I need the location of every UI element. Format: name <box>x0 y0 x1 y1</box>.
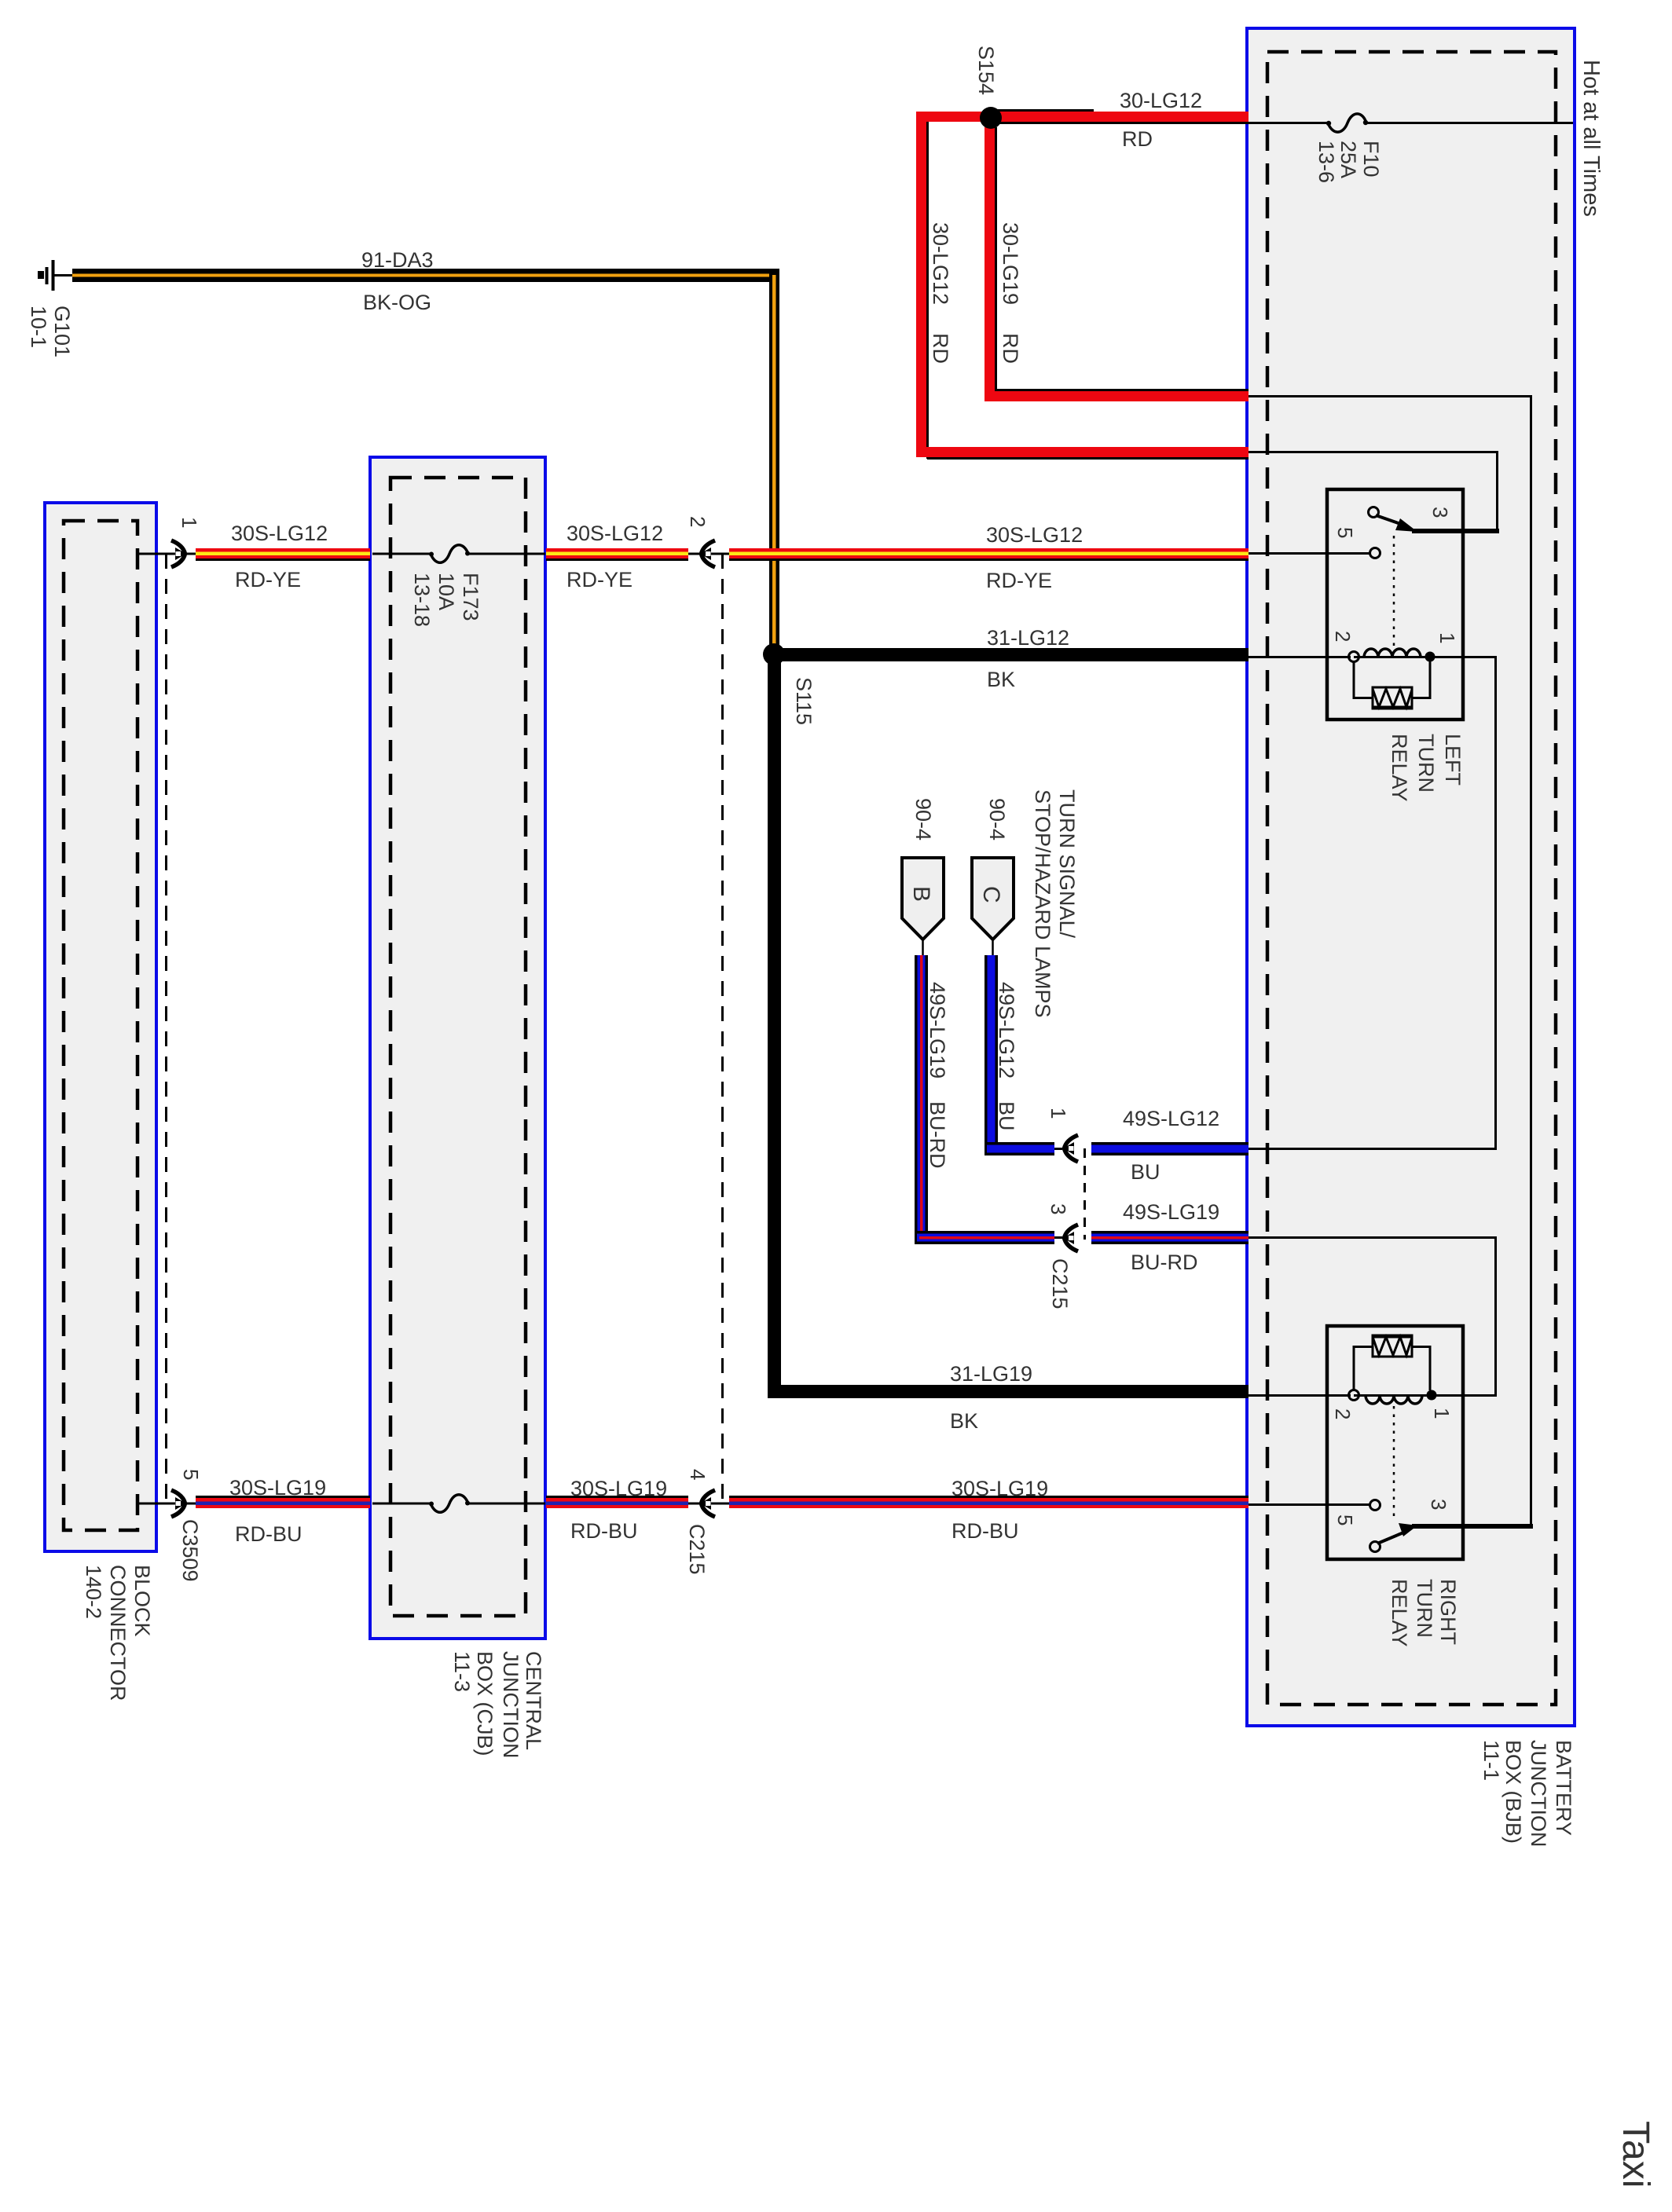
svg-text:90-4: 90-4 <box>985 798 1009 840</box>
svg-text:BK: BK <box>987 668 1015 691</box>
fuse F10 feed line inside BJB <box>1248 122 1328 124</box>
fuse F172 wire inside CJB <box>372 1503 431 1505</box>
internal wire 30S-LG12 to left relay pin 5 <box>1248 552 1370 555</box>
connector pin 1 arrow at C215 49S-LG12 <box>1063 1135 1078 1162</box>
central junction box CJB outline <box>370 457 545 1639</box>
wire 31-LG19 BK from S115 down then right to BJB <box>768 654 1248 1398</box>
svg-text:BLOCK: BLOCK <box>130 1565 154 1637</box>
svg-text:F10: F10 <box>1359 141 1383 178</box>
block connector outline <box>45 503 156 1551</box>
ground G101 symbol <box>38 260 75 291</box>
right relay coil <box>1349 1390 1437 1404</box>
internal wire 31-LG19 to right relay pin 2 <box>1248 1394 1351 1397</box>
connector B pentagon <box>902 858 944 957</box>
fuse F10 element <box>1326 114 1368 132</box>
svg-text:91-DA3: 91-DA3 <box>361 248 434 272</box>
svg-text:CENTRAL: CENTRAL <box>522 1651 545 1750</box>
svg-text:30-LG19: 30-LG19 <box>999 222 1022 305</box>
svg-text:RD-YE: RD-YE <box>235 568 301 591</box>
svg-text:RD-BU: RD-BU <box>570 1519 638 1543</box>
svg-text:30S-LG19: 30S-LG19 <box>570 1477 667 1500</box>
svg-text:3: 3 <box>1428 507 1452 518</box>
svg-text:11-3: 11-3 <box>450 1651 474 1692</box>
connector pin 3 arrow at C215 49S-LG19 <box>1063 1225 1078 1251</box>
left relay dotted link <box>1393 536 1395 646</box>
svg-text:30-LG12: 30-LG12 <box>1120 89 1202 112</box>
wire 30S-LG19 RD-BU segment 3 (C215 to BJB) <box>729 1497 1248 1509</box>
left relay switch common terminal <box>1369 507 1379 518</box>
left relay coil <box>1349 649 1435 662</box>
svg-text:RD-BU: RD-BU <box>951 1519 1019 1543</box>
connector pin 1 arrow at block connector <box>171 540 186 567</box>
svg-text:30S-LG19: 30S-LG19 <box>951 1477 1048 1500</box>
svg-text:11-1: 11-1 <box>1479 1740 1503 1781</box>
svg-text:31-LG12: 31-LG12 <box>987 626 1069 650</box>
wire 30S-LG12 RD-YE segment 1 (block connector to CJB) <box>137 548 370 560</box>
svg-text:C3509: C3509 <box>178 1519 202 1582</box>
svg-text:5: 5 <box>1333 1514 1357 1525</box>
svg-text:TURN SIGNAL/: TURN SIGNAL/ <box>1055 789 1079 939</box>
svg-text:BU-RD: BU-RD <box>926 1101 949 1169</box>
svg-text:RD: RD <box>999 333 1022 364</box>
svg-text:BU: BU <box>995 1101 1018 1131</box>
left relay pin 3 bar <box>1412 529 1499 533</box>
svg-text:BU-RD: BU-RD <box>1131 1251 1198 1274</box>
svg-text:B: B <box>908 886 934 902</box>
svg-text:BATTERY: BATTERY <box>1552 1740 1575 1836</box>
svg-text:25A: 25A <box>1336 141 1360 178</box>
svg-text:49S-LG12: 49S-LG12 <box>1123 1107 1219 1130</box>
internal wire from left relay pin 1 down to 49S-LG12 exit <box>1248 657 1496 1149</box>
svg-text:2: 2 <box>1331 1408 1355 1419</box>
svg-text:1: 1 <box>1047 1108 1070 1119</box>
junction S115 <box>763 643 785 665</box>
svg-text:JUNCTION: JUNCTION <box>499 1651 522 1759</box>
wire 49S-LG12 BU from connector C down then right to BJB <box>984 955 1248 1155</box>
svg-text:10A: 10A <box>434 573 458 610</box>
svg-text:RD: RD <box>929 333 952 364</box>
svg-text:49S-LG19: 49S-LG19 <box>1123 1200 1219 1224</box>
svg-text:BU: BU <box>1131 1160 1160 1184</box>
connector C3509 dashed line <box>165 554 167 1503</box>
fuse F173 element <box>429 545 470 563</box>
connector pin 5 arrow at block connector <box>171 1490 186 1517</box>
svg-text:RD-YE: RD-YE <box>566 568 632 591</box>
svg-text:S115: S115 <box>792 677 816 725</box>
connector C215 dashed line <box>721 554 724 1503</box>
svg-text:30S-LG12: 30S-LG12 <box>986 523 1083 547</box>
svg-text:13-6: 13-6 <box>1314 141 1338 183</box>
svg-text:C215: C215 <box>685 1524 709 1575</box>
svg-text:3: 3 <box>1047 1203 1070 1214</box>
internal wire from 30-LG12 to left relay pin 3 <box>1248 452 1498 532</box>
svg-text:BOX (BJB): BOX (BJB) <box>1501 1740 1525 1844</box>
svg-text:JUNCTION: JUNCTION <box>1527 1740 1550 1848</box>
wire 30-LG19 RD : S154 down then right into BJB <box>984 123 1248 401</box>
svg-text:TURN: TURN <box>1414 734 1438 793</box>
svg-text:RELAY: RELAY <box>1388 734 1411 802</box>
svg-text:RD-YE: RD-YE <box>986 569 1052 592</box>
svg-text:2: 2 <box>1331 631 1355 642</box>
svg-text:BOX (CJB): BOX (CJB) <box>473 1651 497 1756</box>
svg-text:F173: F173 <box>459 573 482 621</box>
right relay switch arm <box>1377 1531 1407 1544</box>
svg-text:30S-LG12: 30S-LG12 <box>231 522 328 545</box>
left relay resistor <box>1354 661 1430 709</box>
fuse F173 wire inside CJB <box>372 553 431 555</box>
svg-text:CONNECTOR: CONNECTOR <box>106 1565 130 1701</box>
svg-text:3: 3 <box>1427 1499 1450 1510</box>
svg-text:1: 1 <box>178 517 201 528</box>
svg-text:140-2: 140-2 <box>82 1565 105 1619</box>
right relay pin 5 terminal <box>1370 1500 1380 1511</box>
svg-text:Hot at all Times: Hot at all Times <box>1578 60 1604 217</box>
wire 91-DA3 BK-OG vertical run down to S115 <box>769 269 779 646</box>
svg-text:30-LG12: 30-LG12 <box>929 222 952 305</box>
svg-text:BK: BK <box>950 1409 978 1433</box>
svg-text:90-4: 90-4 <box>911 798 935 840</box>
svg-text:30S-LG12: 30S-LG12 <box>566 522 663 545</box>
wire 30S-LG12 RD-YE segment 2 (CJB to C215) <box>546 548 731 560</box>
svg-text:49S-LG12: 49S-LG12 <box>995 982 1018 1079</box>
wire 49S-LG19 BU-RD from connector B down then right to BJB <box>915 955 1248 1244</box>
svg-text:5: 5 <box>1333 527 1357 538</box>
wire 30S-LG12 RD-YE segment 3 (C215 to BJB) <box>729 548 1248 560</box>
wire 30S-LG19 RD-BU segment 2 (CJB to C215) <box>546 1497 731 1509</box>
internal wire 30S-LG19 to right relay pin 5 <box>1248 1503 1370 1506</box>
battery junction box BJB outline <box>1247 28 1575 1726</box>
internal wire from 49S-LG19 exit to right relay pin 1 <box>1248 1238 1496 1396</box>
svg-text:49S-LG19: 49S-LG19 <box>926 982 949 1079</box>
left relay switch arm <box>1376 515 1407 526</box>
wire 30S-LG19 RD-BU segment 1 (block connector to CJB) <box>137 1497 370 1509</box>
svg-text:TURN: TURN <box>1413 1579 1436 1638</box>
right relay dotted link <box>1393 1406 1395 1521</box>
junction S154 <box>980 107 1002 129</box>
right relay switch common terminal <box>1370 1542 1380 1552</box>
svg-text:13-18: 13-18 <box>410 573 434 627</box>
wire 91-DA3 BK-OG horizontal run <box>72 269 779 282</box>
connector pin 4 arrow at C215 lower <box>700 1490 715 1517</box>
svg-text:5: 5 <box>179 1469 203 1480</box>
svg-text:G101: G101 <box>50 306 74 357</box>
svg-text:1: 1 <box>1430 1408 1454 1419</box>
svg-text:RIGHT: RIGHT <box>1436 1579 1460 1645</box>
internal wire from 30-LG19 down to right relay pin 3 <box>1248 397 1531 1525</box>
svg-text:4: 4 <box>686 1469 709 1480</box>
svg-text:BK-OG: BK-OG <box>363 291 431 314</box>
svg-text:C215: C215 <box>1048 1258 1072 1309</box>
svg-text:1: 1 <box>1435 632 1459 643</box>
svg-text:10-1: 10-1 <box>27 306 50 348</box>
svg-text:30S-LG19: 30S-LG19 <box>229 1476 326 1500</box>
internal wire 31-LG12 to left relay pin 2 <box>1248 656 1351 658</box>
right relay resistor <box>1354 1335 1430 1390</box>
svg-text:2: 2 <box>686 516 709 527</box>
fuse F172 element <box>429 1495 470 1513</box>
left turn relay box <box>1327 489 1463 720</box>
connector C pentagon <box>972 858 1014 957</box>
wire 30-LG12 RD : S154 left then down then right into BJB <box>916 111 1251 460</box>
left relay pin 5 terminal <box>1370 548 1380 558</box>
svg-text:S154: S154 <box>974 46 998 95</box>
svg-text:31-LG19: 31-LG19 <box>950 1362 1032 1386</box>
svg-text:RD: RD <box>1122 127 1153 151</box>
connector C215 short dashed line at 49S wires <box>1083 1148 1086 1240</box>
svg-text:RELAY: RELAY <box>1388 1579 1411 1647</box>
placeholder groups filled in later <box>38 107 1251 1508</box>
wire 31-LG12 BK from S115 to BJB <box>774 648 1248 661</box>
svg-text:RD-BU: RD-BU <box>235 1522 302 1546</box>
connector pin 2 arrow at C215 upper <box>700 540 715 567</box>
svg-text:LEFT: LEFT <box>1441 734 1465 786</box>
svg-text:STOP/HAZARD LAMPS: STOP/HAZARD LAMPS <box>1031 789 1054 1018</box>
svg-text:Taxi: Taxi <box>1615 2121 1656 2188</box>
svg-text:C: C <box>978 886 1004 903</box>
right relay pin 3 bar <box>1412 1524 1533 1529</box>
right turn relay box <box>1327 1326 1463 1559</box>
